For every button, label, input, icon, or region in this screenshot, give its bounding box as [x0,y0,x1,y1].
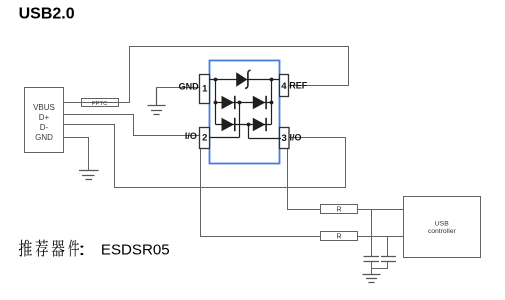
svg-text:USB: USB [435,221,449,228]
internal top rail wire [210,79,280,81]
capacitor C1 [364,257,380,262]
ground symbol at pin 1 GND [148,88,166,115]
pin 3 box [280,128,290,149]
internal right rail wire [271,80,273,125]
svg-text:D+: D+ [39,113,50,122]
svg-text:1: 1 [202,84,208,95]
wire connector GND down to ground [64,138,89,171]
pin 1 box [200,75,210,104]
wire C2 bottom joining C1 ground [372,262,388,269]
svg-text:PPTC: PPTC [92,101,107,107]
wire D- around bottom to I/O pin 3 [64,125,346,188]
svg-text:R: R [336,207,341,214]
internal row 1 wire [216,102,272,104]
junction node row2-center [247,123,251,127]
junction node row1-center [238,101,242,105]
internal left rail wire [215,80,217,125]
wire pin 1 GND to ground [157,87,200,89]
svg-text:VBUS: VBUS [33,103,55,112]
svg-text:D-: D- [40,123,49,132]
wire C1 bottom to ground [371,262,373,275]
svg-text:REF: REF [289,80,308,90]
steering diode D4 [253,118,266,132]
wire D+ to I/O pin 2 [64,115,200,136]
svg-text:2: 2 [202,133,207,144]
junction node row1-left [214,101,218,105]
internal wire row2 junction down to pin 3 [249,125,282,139]
caption character 荐 [35,240,48,257]
wire lower net down to capacitor C2 [387,237,389,257]
USB controller label [428,221,457,235]
wire pin 3 down through upper R to USB controller [288,149,404,210]
caption character 件 [68,240,79,257]
connector labels [33,103,55,142]
svg-text:GND: GND [35,133,53,142]
internal row 2 wire [216,124,272,126]
svg-text:ESDSR05: ESDSR05 [101,242,170,259]
junction node top-left [214,78,218,82]
steering diode D1 [222,96,235,110]
svg-text:3: 3 [281,133,286,144]
caption character 器 [52,240,65,257]
pin 4 box [280,75,289,97]
USB controller U2 box [404,197,481,258]
svg-text:GND: GND [179,81,200,91]
svg-text:R: R [336,234,341,241]
svg-text:4: 4 [281,81,287,92]
wire VBUS through PPTC up over top rail down to REF pin 4 [64,47,349,103]
svg-text:I/O: I/O [185,131,197,141]
capacitor C2 [381,257,396,262]
junction node top-right [270,78,274,82]
TVS zener diode D5 [236,70,250,88]
ground symbol below connector [79,171,99,180]
internal wire row1 junction down to pin 2 [210,103,240,138]
junction node row1-right [270,101,274,105]
wire upper net down to capacitor C1 [371,210,373,257]
ground symbol below capacitors [363,275,381,283]
resistor R (lower, to pin 2 net) [321,232,358,241]
caption character ： [80,245,83,255]
steering diode D2 [253,96,266,110]
steering diode D3 [222,118,235,132]
ESD protection device U1 body [210,61,280,164]
PPTC fuse F1 [82,99,119,107]
pin 2 box [200,128,210,149]
wire pin 2 down through lower R to USB controller [201,149,404,237]
resistor R (upper, to pin 3 net) [321,205,358,214]
svg-text:controller: controller [428,228,457,235]
svg-text:I/O: I/O [290,133,302,143]
svg-text:USB2.0: USB2.0 [19,5,75,22]
caption character 推 [19,240,32,257]
USB connector box J1 (VBUS/D+/D-/GND) [25,88,64,153]
